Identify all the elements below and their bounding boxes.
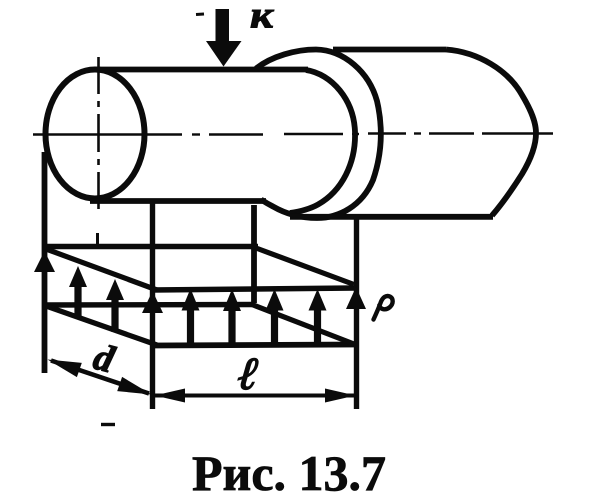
projection vertical left (x=44.5) [42, 152, 48, 373]
dimension d right arrowhead [117, 377, 151, 395]
slab right top diagonal [256, 248, 354, 285]
slab left top diagonal [46, 249, 157, 290]
slab front top edge [152, 288, 356, 290]
dimension l line [154, 394, 356, 398]
svg-text:Рис. 13.7: Рис. 13.7 [192, 445, 386, 500]
projection vertical at x=152.5 [150, 203, 155, 409]
slab right bottom diagonal [252, 305, 354, 345]
journal vertical axis (dash-dot) [97, 57, 100, 209]
slab left bottom diagonal [46, 306, 157, 345]
load arrow F4 [266, 289, 284, 344]
journal top line [94, 67, 308, 73]
load arrow F3 [223, 289, 241, 344]
dimension d line [51, 361, 149, 394]
bearing right rounded end [446, 50, 536, 216]
load arrow F2 [182, 289, 200, 345]
bearing bottom line [290, 214, 493, 220]
projection vertical at x=252 [251, 205, 257, 303]
slab back bottom edge [46, 302, 255, 308]
artifact dash below d [101, 423, 115, 426]
dimension d left arrowhead [48, 360, 82, 378]
load arrow F6 (front-right corner, on right vertical) [346, 287, 366, 309]
dimension l left arrowhead [155, 389, 186, 403]
artifact dash near K arrow [196, 13, 204, 17]
horizontal centerline (dash-dot) [33, 134, 553, 135]
slab back top edge [46, 244, 258, 249]
bearing left end outline [256, 50, 381, 219]
svg-text:ℓ: ℓ [236, 348, 261, 399]
load arrow F5 [309, 289, 327, 344]
svg-text:к: к [250, 0, 275, 37]
journal left end face (ellipse) [46, 70, 145, 199]
dimension l right arrowhead [325, 389, 356, 403]
label p [374, 296, 393, 320]
bearing top line [333, 47, 446, 53]
load arrow A1 (corner, on left vertical) [34, 251, 55, 272]
load arrow A3 [106, 279, 124, 332]
journal bottom line [90, 198, 266, 204]
force K arrow [206, 9, 242, 67]
load arrow A2 [69, 266, 87, 318]
journal right end cap [290, 70, 355, 213]
load arrow F1 (front-left corner) [142, 291, 163, 313]
svg-text:d: d [89, 336, 119, 382]
projection vertical right (x=356.5) [354, 216, 359, 409]
artifact tick at x=98 [96, 233, 99, 247]
slab front bottom edge [153, 345, 356, 346]
